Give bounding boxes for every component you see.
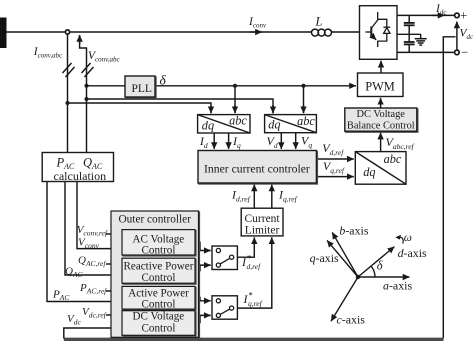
svg-text:Vdc,ref: Vdc,ref bbox=[82, 306, 107, 320]
svg-text:Vconv,ref: Vconv,ref bbox=[77, 224, 108, 238]
svg-text:Id,ref: Id,ref bbox=[231, 188, 251, 204]
svg-text:dq: dq bbox=[202, 119, 214, 133]
svg-text:Control: Control bbox=[142, 299, 176, 311]
svg-text:b-axis: b-axis bbox=[339, 224, 368, 238]
svg-text:Vd: Vd bbox=[267, 134, 278, 150]
svg-text:I*q,ref: I*q,ref bbox=[243, 291, 263, 308]
svg-text:Control: Control bbox=[142, 245, 176, 257]
svg-text:Vdc: Vdc bbox=[460, 28, 474, 42]
svg-text:QAC,ref: QAC,ref bbox=[78, 255, 106, 269]
svg-text:dq: dq bbox=[268, 118, 280, 132]
svg-text:Outer controller: Outer controller bbox=[119, 214, 192, 226]
svg-text:Iq: Iq bbox=[232, 134, 241, 150]
svg-text:Control: Control bbox=[142, 272, 176, 284]
svg-text:QAC: QAC bbox=[65, 266, 84, 280]
svg-text:d-axis: d-axis bbox=[398, 246, 427, 260]
svg-text:PAC,ref: PAC,ref bbox=[79, 282, 107, 296]
svg-text:Idc: Idc bbox=[435, 3, 447, 17]
svg-text:Id: Id bbox=[199, 134, 208, 150]
svg-text:Control: Control bbox=[142, 322, 176, 334]
svg-text:L: L bbox=[315, 15, 323, 29]
svg-text:−: − bbox=[461, 45, 468, 60]
svg-text:Vconv,abc: Vconv,abc bbox=[88, 50, 120, 64]
svg-text:abc: abc bbox=[384, 152, 402, 166]
svg-text:a-axis: a-axis bbox=[383, 279, 412, 293]
svg-text:Vq: Vq bbox=[301, 134, 312, 150]
svg-text:PAC: PAC bbox=[52, 289, 70, 303]
svg-text:PLL: PLL bbox=[132, 83, 152, 95]
svg-text:c-axis: c-axis bbox=[337, 313, 366, 327]
svg-text:Vq,ref: Vq,ref bbox=[323, 159, 345, 175]
svg-text:+: + bbox=[460, 8, 467, 23]
svg-text:DC Voltage: DC Voltage bbox=[133, 311, 185, 323]
svg-text:Vdc: Vdc bbox=[67, 313, 81, 327]
svg-text:Vabc,ref: Vabc,ref bbox=[386, 135, 415, 151]
svg-text:abc: abc bbox=[229, 113, 247, 127]
svg-text:q-axis: q-axis bbox=[310, 251, 339, 265]
svg-text:ω: ω bbox=[404, 232, 412, 244]
svg-text:abc: abc bbox=[297, 114, 315, 128]
svg-text:dq: dq bbox=[363, 165, 375, 179]
svg-text:Iconv: Iconv bbox=[248, 16, 267, 30]
svg-text:calculation: calculation bbox=[54, 169, 107, 183]
svg-text:δ: δ bbox=[377, 259, 383, 273]
svg-text:PWM: PWM bbox=[365, 80, 395, 94]
svg-text:Vd,ref: Vd,ref bbox=[322, 141, 344, 157]
svg-text:Iq,ref: Iq,ref bbox=[278, 188, 298, 204]
svg-text:Limiter: Limiter bbox=[245, 224, 280, 236]
svg-text:Current: Current bbox=[245, 213, 281, 225]
svg-text:Iconv,abc: Iconv,abc bbox=[33, 46, 63, 60]
svg-text:δ: δ bbox=[160, 73, 167, 88]
svg-text:DC Voltage: DC Voltage bbox=[357, 109, 406, 120]
svg-text:Balance Control: Balance Control bbox=[347, 121, 415, 132]
svg-text:I*d,ref: I*d,ref bbox=[241, 254, 261, 271]
svg-text:Vconv: Vconv bbox=[78, 237, 100, 251]
svg-text:Reactive Power: Reactive Power bbox=[124, 261, 194, 273]
svg-text:Inner current controler: Inner current controler bbox=[204, 163, 310, 176]
